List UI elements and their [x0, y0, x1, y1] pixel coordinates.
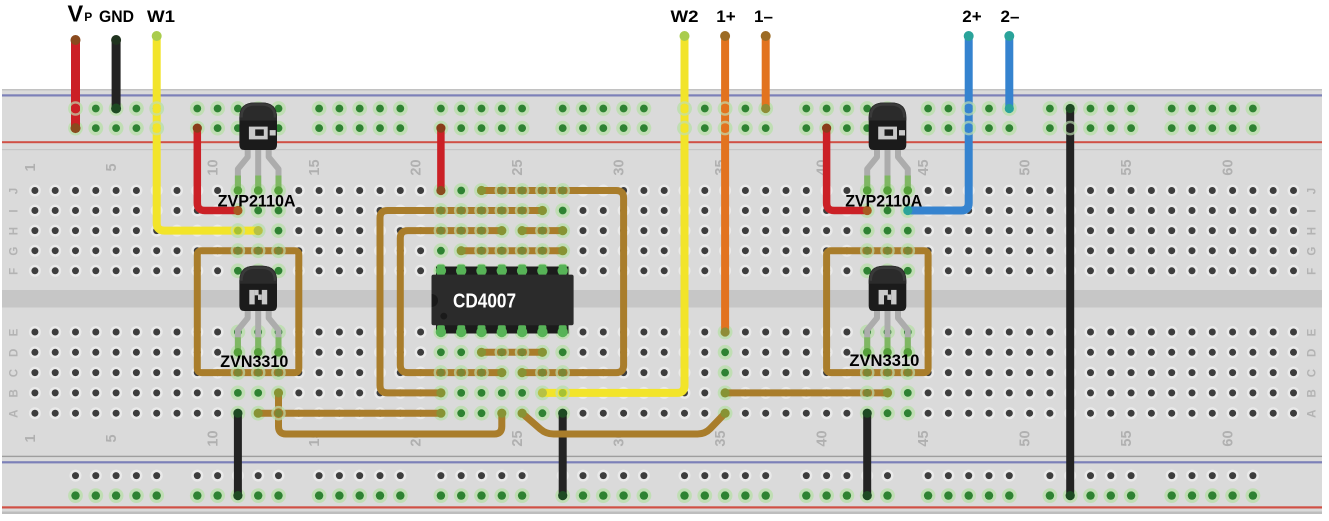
svg-text:B: B: [1307, 389, 1319, 397]
svg-text:D: D: [1307, 349, 1319, 357]
wire 2-: blue lead to top rail row1: [1005, 36, 1013, 109]
svg-text:10: 10: [206, 430, 222, 446]
svg-text:W1: W1: [147, 7, 175, 26]
svg-text:55: 55: [1119, 430, 1135, 446]
svg-text:25: 25: [510, 430, 526, 446]
svg-text:5: 5: [104, 434, 120, 442]
svg-text:B: B: [9, 389, 21, 397]
top rail blue line: [2, 94, 1322, 96]
IC U1 CD4007: [436, 267, 569, 277]
wire 1-: orange lead to top rail row1: [762, 36, 770, 109]
wire: supply jumper rail col21 to J21: [437, 128, 445, 190]
svg-text:A: A: [9, 410, 21, 418]
wire GND: black lead into top rail row1: [112, 40, 121, 109]
wire: J23 to C25 via col30: [482, 191, 624, 373]
wire: H24 to C24 via col19: [400, 231, 502, 373]
wire: B35 to B43: [725, 389, 887, 396]
svg-text:C: C: [9, 369, 21, 377]
svg-text:2–: 2–: [1001, 7, 1020, 26]
svg-text:10: 10: [206, 159, 222, 175]
wire: A25 to A35 via bottom channel: [522, 413, 725, 434]
svg-text:25: 25: [510, 159, 526, 175]
transistor Q1 ZVP2110A (left): [238, 146, 248, 191]
svg-text:5: 5: [104, 163, 120, 171]
svg-text:G: G: [1307, 247, 1319, 256]
connected net hole highlights: [68, 101, 1260, 503]
center channel: [2, 290, 1322, 308]
wire 2+: blue lead to I44: [908, 36, 969, 211]
svg-text:J: J: [1307, 188, 1319, 194]
svg-text:VP: VP: [68, 1, 93, 27]
wire 1+: orange lead to E35: [721, 36, 729, 332]
svg-text:ZVN3310: ZVN3310: [220, 352, 288, 371]
wire: left transistor loop (rect cols 9-14, rows G-C): [197, 251, 298, 373]
transistor Q4 ZVN3310 (right): [867, 307, 877, 352]
svg-text:45: 45: [916, 159, 932, 175]
wire: supply jumper rail col9 to I11: [197, 128, 238, 210]
svg-text:15: 15: [307, 159, 323, 175]
top rail divider: [2, 149, 1322, 150]
wire: B13 to A24 via bottom channel: [279, 393, 502, 434]
wire VP: red supply lead into top rail row2: [71, 40, 80, 128]
svg-text:60: 60: [1221, 159, 1237, 175]
svg-text:1: 1: [23, 163, 39, 171]
wire: ground jumper top rail col52 to bottom rail: [1066, 109, 1074, 496]
svg-text:W2: W2: [671, 7, 699, 26]
svg-text:G: G: [9, 247, 21, 256]
wire: right transistor loop (rect cols 40-45, rows G-C): [827, 251, 929, 373]
svg-text:ZVP2110A: ZVP2110A: [845, 192, 922, 211]
svg-text:ZVP2110A: ZVP2110A: [218, 192, 296, 211]
wire: G22 to G27: [461, 247, 563, 254]
bottom rail divider: [2, 456, 1322, 457]
transistor Q2 ZVN3310 (left): [238, 307, 248, 352]
svg-text:I: I: [1307, 209, 1319, 212]
svg-text:30: 30: [612, 159, 628, 175]
svg-text:J: J: [9, 188, 21, 194]
svg-text:35: 35: [713, 430, 729, 446]
bottom rail red line: [2, 506, 1322, 508]
svg-text:60: 60: [1221, 430, 1237, 446]
wire: supply jumper rail col40 to I42: [827, 128, 868, 210]
wire: A12 to A21: [258, 410, 441, 417]
svg-text:H: H: [1307, 227, 1319, 235]
svg-text:1: 1: [23, 434, 39, 442]
wire W2: yellow lead to B26: [542, 36, 684, 393]
svg-text:1–: 1–: [754, 7, 773, 26]
svg-text:D: D: [9, 349, 21, 357]
column numbers and row letters: [9, 159, 1319, 446]
svg-text:E: E: [9, 328, 21, 336]
svg-text:2+: 2+: [962, 7, 981, 26]
svg-text:40: 40: [815, 430, 831, 446]
wire: I26 to B21 via col18: [380, 211, 542, 393]
svg-text:F: F: [9, 268, 21, 275]
top rail red line: [2, 141, 1322, 143]
svg-text:45: 45: [916, 430, 932, 446]
svg-text:F: F: [1307, 268, 1319, 275]
svg-text:C: C: [1307, 369, 1319, 377]
svg-text:55: 55: [1119, 159, 1135, 175]
svg-text:E: E: [1307, 328, 1319, 336]
svg-text:50: 50: [1018, 430, 1034, 446]
net highlights over wires: [69, 102, 1076, 419]
svg-text:GND: GND: [99, 7, 134, 26]
svg-text:A: A: [1307, 410, 1319, 418]
svg-text:CD4007: CD4007: [453, 291, 516, 313]
wire: H25 to H27: [522, 227, 563, 234]
transistor Q3 ZVP2110A (right): [867, 146, 877, 191]
wire W1: yellow lead to H12: [157, 36, 259, 231]
wire: ground jumper A42 to bottom rail: [863, 413, 871, 495]
wire: ground jumper A27 to bottom rail: [559, 413, 567, 495]
wire: ground jumper A11 to bottom rail: [234, 413, 242, 495]
wire: D23 to D26: [482, 349, 543, 356]
svg-text:20: 20: [409, 159, 425, 175]
svg-text:1+: 1+: [716, 7, 735, 26]
svg-text:I: I: [9, 209, 21, 212]
svg-text:ZVN3310: ZVN3310: [849, 351, 919, 370]
svg-text:50: 50: [1018, 159, 1034, 175]
bottom rail blue line: [2, 461, 1322, 463]
svg-text:H: H: [9, 227, 21, 235]
